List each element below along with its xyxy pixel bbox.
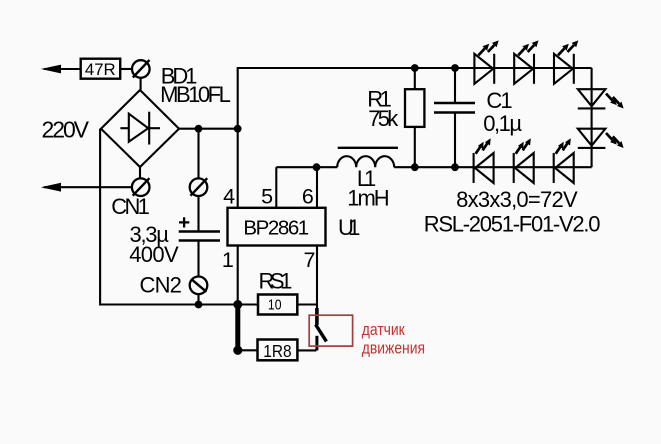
svg-text:0,1µ: 0,1µ xyxy=(483,111,522,136)
svg-text:RS1: RS1 xyxy=(259,269,293,294)
svg-text:75k: 75k xyxy=(368,106,399,131)
svg-text:400V: 400V xyxy=(129,242,179,267)
svg-text:220V: 220V xyxy=(42,117,90,143)
svg-text:7: 7 xyxy=(304,248,316,272)
svg-text:CN2: CN2 xyxy=(140,273,182,298)
svg-text:5: 5 xyxy=(261,185,273,209)
svg-text:1R8: 1R8 xyxy=(263,341,291,361)
svg-text:47R: 47R xyxy=(85,60,116,79)
svg-text:U1: U1 xyxy=(338,215,360,240)
svg-text:CN1: CN1 xyxy=(111,194,150,219)
svg-text:MB10FL: MB10FL xyxy=(160,82,231,107)
svg-text:RSL-2051-F01-V2.0: RSL-2051-F01-V2.0 xyxy=(424,211,601,236)
svg-text:C1: C1 xyxy=(486,88,512,113)
svg-text:движения: движения xyxy=(362,340,425,358)
svg-text:BP2861: BP2861 xyxy=(243,217,309,240)
svg-text:10: 10 xyxy=(268,297,282,314)
svg-text:8x3x3,0=72V: 8x3x3,0=72V xyxy=(456,187,578,212)
svg-text:6: 6 xyxy=(302,185,314,209)
svg-text:1: 1 xyxy=(222,248,234,272)
svg-text:1mH: 1mH xyxy=(347,185,390,210)
svg-text:датчик: датчик xyxy=(362,321,405,339)
svg-text:4: 4 xyxy=(223,185,235,209)
